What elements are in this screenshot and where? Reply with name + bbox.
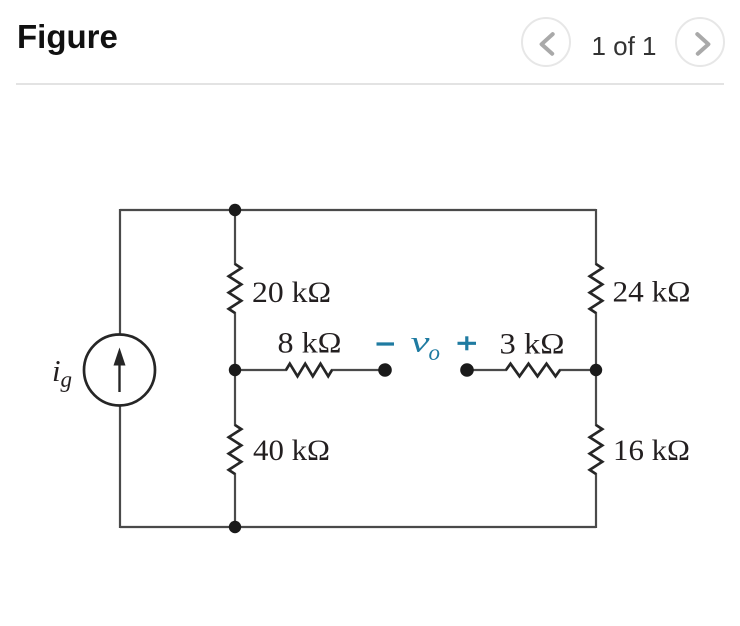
wire 8k to vo minus node: [331, 369, 385, 371]
header title "Figure": [17, 18, 118, 56]
current source ig circle: [84, 335, 155, 406]
wire bottom from left branch to right branch: [120, 526, 596, 528]
node dot vo minus terminal: [378, 363, 392, 377]
vo plus sign vertical: [465, 336, 468, 350]
node dot middle of branch 1: [229, 364, 241, 376]
pagination prev button: [521, 17, 571, 67]
svg-text:v: v: [411, 326, 431, 359]
current source arrow head: [114, 348, 126, 366]
svg-text:8 kΩ: 8 kΩ: [278, 326, 342, 359]
wire right upper: [595, 209, 597, 265]
wire 3k to right branch: [559, 369, 596, 371]
wire middle branch center (20k to 40k): [234, 312, 236, 426]
resistor 16k zigzag: [590, 425, 603, 474]
resistor 40k zigzag: [229, 425, 242, 474]
wire middle branch upper (node to 20k): [234, 209, 236, 265]
resistor 24k zigzag: [590, 264, 603, 313]
node dot bottom of branch 1: [229, 521, 241, 533]
svg-text:24 kΩ: 24 kΩ: [613, 276, 691, 309]
pagination next button: [675, 17, 725, 67]
svg-text:i: i: [52, 353, 61, 388]
wire top from left branch to right branch: [120, 209, 596, 211]
svg-text:g: g: [61, 367, 73, 392]
pagination label "1 of 1": [585, 31, 663, 62]
wire vo plus node to 3k: [467, 369, 507, 371]
current source arrow shaft: [118, 362, 120, 392]
wire right middle: [595, 312, 597, 426]
node dot right branch middle: [590, 364, 602, 376]
vo minus sign: [377, 342, 395, 345]
svg-text:20 kΩ: 20 kΩ: [252, 276, 331, 309]
svg-text:o: o: [429, 340, 441, 365]
resistor 20k zigzag: [229, 264, 242, 313]
wire middle branch lower (40k to bottom): [234, 473, 236, 528]
svg-text:16 kΩ: 16 kΩ: [613, 434, 690, 467]
wire mid horizontal left (node to 8k): [235, 369, 287, 371]
resistor 3k zigzag (horizontal): [506, 364, 560, 377]
node dot vo plus terminal: [460, 363, 474, 377]
svg-text:3 kΩ: 3 kΩ: [500, 327, 565, 360]
wire left lower (source to bottom wire): [119, 405, 121, 528]
resistor 8k zigzag (horizontal): [286, 364, 332, 377]
node dot top of branch 1: [229, 204, 241, 216]
svg-text:40 kΩ: 40 kΩ: [253, 434, 330, 467]
wire left upper (source to top wire): [119, 209, 121, 335]
header separator rule: [16, 83, 724, 85]
wire right lower: [595, 473, 597, 528]
vo plus sign horizontal: [458, 342, 477, 345]
